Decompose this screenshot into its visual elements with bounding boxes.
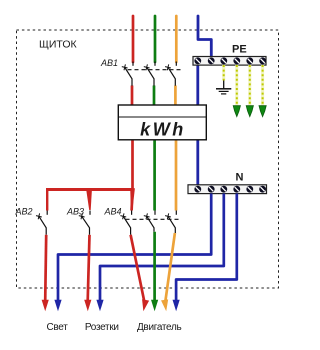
- wire orange meter to АВ4: [175, 139, 178, 211]
- PE bar screw terminals: [194, 57, 266, 64]
- breaker АВ1 pole 3: [165, 62, 176, 86]
- wire orange Двигатель output: [165, 233, 175, 301]
- breaker АВ4 pole 1: [120, 211, 131, 235]
- arrow green Двигатель: [151, 300, 158, 312]
- arrow red Розетки: [84, 300, 91, 312]
- N bar screw terminals: [194, 186, 266, 193]
- svg-text:Свет: Свет: [46, 322, 68, 333]
- wire green meter to АВ4: [153, 139, 156, 211]
- wire L3 orange incoming: [175, 16, 178, 62]
- wire L2 green incoming: [154, 16, 157, 62]
- wire red Розетки output: [88, 235, 90, 301]
- arrow orange Двигатель: [161, 299, 170, 311]
- svg-text:N: N: [236, 172, 244, 184]
- svg-text:kWh: kWh: [140, 120, 186, 140]
- svg-text:Двигатель: Двигатель: [137, 322, 182, 333]
- svg-text:АВ4: АВ4: [104, 207, 122, 217]
- N bus bar: [188, 185, 267, 194]
- panel enclosure ЩИТОК dashed border: [17, 30, 279, 288]
- АВ1 linkage dashed: [128, 69, 183, 71]
- wire L1 red incoming: [132, 16, 135, 62]
- PE drop conductor 3 dashed: [261, 65, 264, 106]
- wire PEN blue incoming with jog to PE bar: [198, 16, 211, 57]
- arrow blue Розетки: [96, 300, 103, 312]
- PE drop conductor 1 dashed: [235, 65, 238, 106]
- АВ4 linkage dashed: [126, 218, 181, 220]
- PE drop conductor 2 dashed: [248, 65, 251, 106]
- svg-text:PE: PE: [232, 43, 247, 55]
- breaker АВ1 pole 1: [122, 62, 133, 86]
- arrow blue Свет: [54, 300, 61, 312]
- PE earthing conductor dashed: [222, 65, 225, 81]
- breaker АВ4 pole 3: [165, 211, 176, 234]
- kWh meter U1: [118, 105, 206, 140]
- PE arrow 1 green: [233, 106, 240, 117]
- PE arrow 2 green: [246, 106, 253, 117]
- svg-text:Розетки: Розетки: [85, 322, 119, 333]
- arrow blue Двигатель: [173, 300, 180, 312]
- svg-text:АВ2: АВ2: [15, 207, 33, 217]
- arrow red Свет: [42, 300, 49, 312]
- PE bus bar: [193, 57, 266, 66]
- arrow red Двигатель: [140, 299, 149, 312]
- red bus L1 distribution: [46, 188, 135, 210]
- wire blue PE-bar to meter and N bar: [196, 65, 199, 186]
- PE arrow 3 green: [259, 106, 266, 117]
- breaker АВ1 pole 2: [144, 62, 155, 86]
- svg-text:АВ3: АВ3: [66, 207, 84, 217]
- wire red Свет output: [45, 235, 46, 301]
- wire N blue to Розетки: [100, 194, 224, 302]
- wire N blue to Свет: [58, 194, 211, 302]
- wire red meter to bus and АВ4: [130, 139, 134, 211]
- wire red Двигатель output: [131, 235, 145, 301]
- ground symbol: [216, 81, 231, 94]
- wire N blue to Двигатель: [176, 194, 237, 302]
- breaker АВ2: [36, 211, 47, 235]
- svg-text:ЩИТОК: ЩИТОК: [39, 39, 78, 51]
- wire green АВ1 to meter: [153, 86, 156, 107]
- wire green Двигатель output: [153, 232, 156, 301]
- wire orange АВ1 to meter: [174, 86, 177, 107]
- breaker АВ4 pole 2: [144, 211, 155, 232]
- wire red АВ1 to meter: [131, 86, 134, 107]
- svg-text:АВ1: АВ1: [100, 58, 118, 68]
- breaker АВ3: [79, 211, 90, 235]
